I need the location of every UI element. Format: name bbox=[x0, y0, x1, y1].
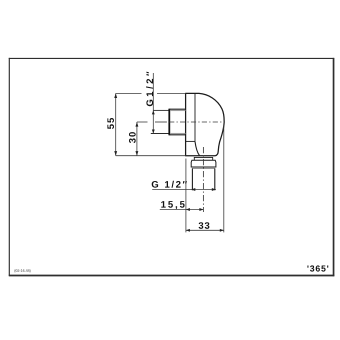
border frame bottom bbox=[9, 275, 335, 277]
body inner boss line bbox=[194, 94, 196, 142]
dim 55 arrow bottom bbox=[114, 151, 117, 156]
centerline vertical bbox=[202, 147, 204, 212]
dim G1/2 bottom arrow right bbox=[212, 188, 216, 191]
dim 15,5 line bbox=[160, 209, 204, 211]
body outline (elbow) bbox=[186, 93, 225, 155]
dim G1/2 top arrow lower bbox=[152, 130, 155, 134]
bottom thread left side bbox=[191, 168, 193, 190]
left thread start thick line bbox=[168, 109, 170, 136]
dim 15,5 arrow right bbox=[199, 208, 203, 211]
left thread OD top line bbox=[169, 108, 185, 110]
part number 365 text bbox=[307, 265, 328, 271]
dim 30 extension line bbox=[137, 121, 148, 123]
body top extension segment bbox=[157, 92, 186, 94]
spout neck left side bbox=[193, 157, 195, 160]
border frame right bbox=[333, 58, 335, 276]
collar bottom gray line bbox=[192, 167, 214, 169]
dim G1/2 bottom arrow left bbox=[191, 188, 195, 191]
border frame left bbox=[8, 58, 10, 276]
left thread OD bottom line bbox=[169, 134, 185, 136]
dim G1/2 top text bbox=[146, 72, 153, 107]
dim G1/2 top line (end face) bbox=[152, 73, 154, 134]
dim 55 extension bottom line bbox=[116, 155, 186, 157]
bottom thread right side bbox=[214, 168, 216, 190]
centerline horizontal start dash bbox=[155, 121, 167, 123]
border frame top bbox=[9, 57, 334, 59]
dim G1/2 bottom text bbox=[152, 181, 187, 188]
centerline horizontal bbox=[169, 121, 222, 123]
doc number small text bbox=[14, 269, 30, 272]
dim 33 arrow left bbox=[186, 229, 190, 232]
dim G1/2 top arrow upper bbox=[152, 110, 155, 114]
collar outline bbox=[191, 160, 216, 167]
left thread tip bottom line bbox=[151, 133, 169, 135]
dim 33 arrow right bbox=[220, 229, 224, 232]
left thread root top line bbox=[170, 110, 185, 112]
dim 55 extension top line bbox=[116, 92, 142, 94]
dim 55 arrow top bbox=[114, 93, 117, 98]
dim 15,5 text bbox=[161, 201, 184, 209]
body step line bbox=[186, 140, 195, 142]
dim 33 left extension line bbox=[185, 159, 187, 233]
dim 55 line bbox=[115, 93, 117, 155]
dim 30 line bbox=[136, 122, 138, 156]
dim 30 arrow top bbox=[135, 122, 138, 127]
dim 55 text bbox=[107, 118, 114, 129]
dim 30 text bbox=[129, 132, 136, 143]
left thread root bottom line bbox=[170, 132, 185, 134]
left thread tip top line bbox=[153, 109, 168, 111]
spout neck top line bbox=[194, 156, 213, 158]
dim 30 arrow bottom bbox=[135, 151, 138, 156]
dim 33 right extension line bbox=[223, 126, 225, 233]
body fillet to spout bbox=[195, 141, 200, 155]
dim 33 line bbox=[186, 229, 224, 231]
spout neck right side bbox=[212, 157, 214, 160]
dim G1/2 bottom leader line bbox=[152, 189, 216, 191]
dim 33 text bbox=[199, 222, 210, 229]
dim 15,5 arrow left bbox=[186, 208, 190, 211]
